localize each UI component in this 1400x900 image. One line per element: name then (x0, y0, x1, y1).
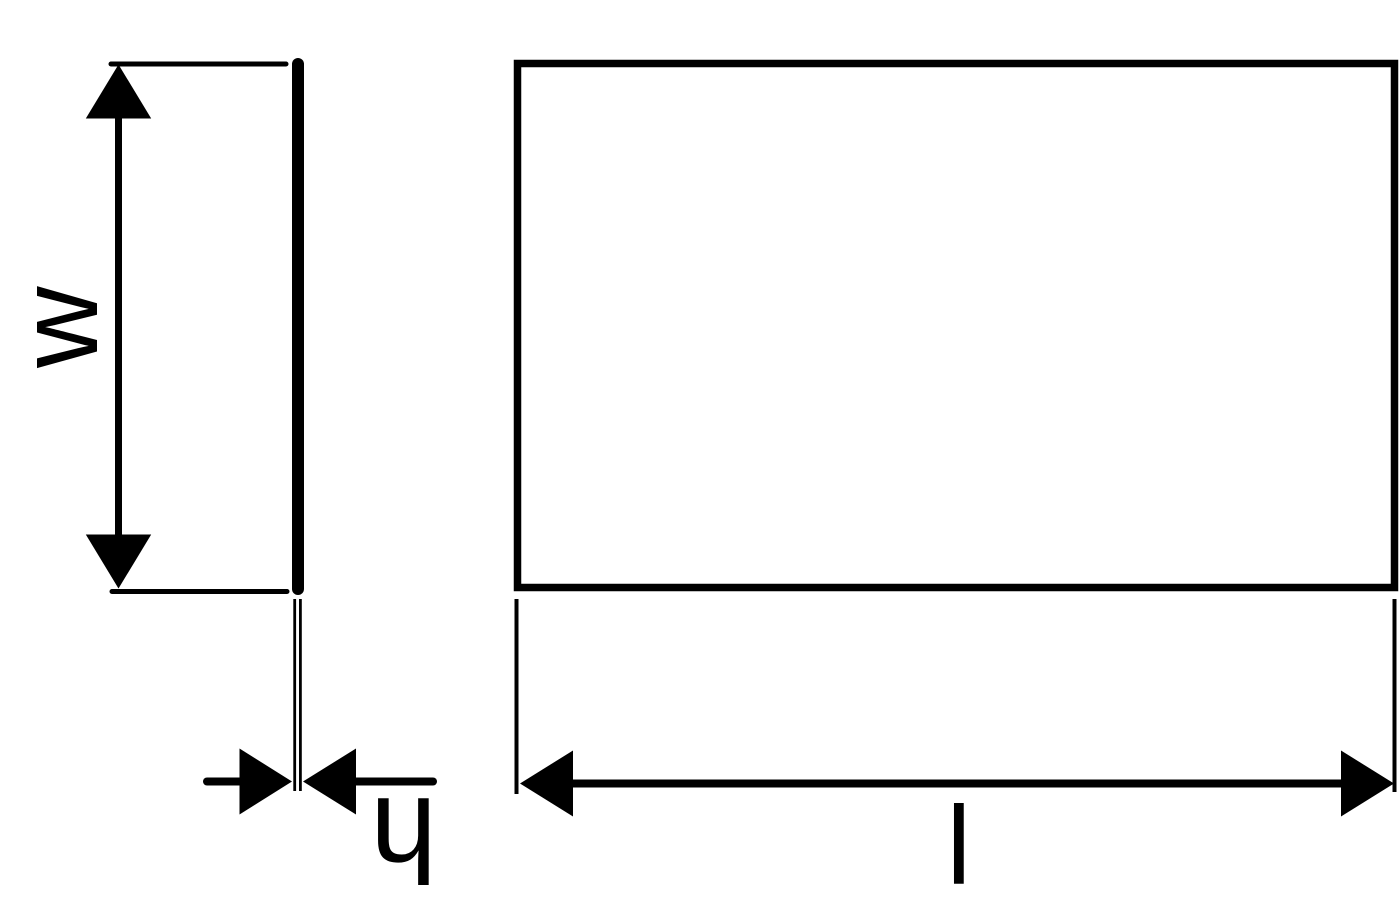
svg-text:l: l (947, 784, 972, 900)
extension line thickness left face (293, 599, 296, 791)
extension line right (l) (1393, 599, 1397, 792)
dimension line w (115, 112, 122, 540)
extension line bottom (w) (112, 589, 287, 594)
thickness dim tail right (355, 778, 433, 786)
sheet face view rectangle (518, 64, 1395, 588)
arrowhead w bottom (86, 535, 151, 589)
arrowhead thickness left (points right) (240, 749, 293, 815)
svg-text:h: h (370, 772, 437, 900)
arrowhead l left (520, 751, 573, 817)
sheet edge view (thick vertical line) (292, 64, 304, 589)
extension line left (l) (515, 599, 519, 794)
arrowhead w top (86, 65, 151, 119)
thickness dim tail left (207, 778, 242, 786)
arrowhead thickness right (points left) (303, 749, 356, 815)
svg-text:w: w (0, 286, 121, 369)
arrowhead l right (1341, 751, 1394, 817)
dimension line l (570, 780, 1343, 788)
extension line thickness right face (299, 599, 302, 791)
extension line top (w) (111, 62, 286, 67)
